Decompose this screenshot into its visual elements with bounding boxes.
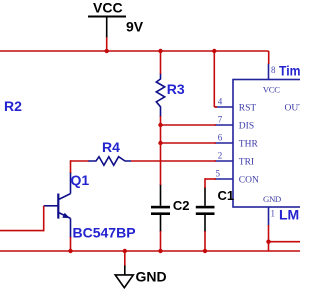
svg-text:VCC: VCC	[263, 84, 280, 94]
svg-text:OUT: OUT	[285, 103, 301, 113]
svg-text:C2: C2	[173, 198, 190, 213]
svg-text:6: 6	[218, 133, 223, 143]
svg-text:CON: CON	[239, 175, 259, 185]
svg-text:Q1: Q1	[71, 172, 90, 188]
svg-text:9V: 9V	[126, 19, 144, 35]
svg-text:R4: R4	[102, 139, 120, 155]
svg-text:BC547BP: BC547BP	[73, 225, 136, 241]
svg-text:R2: R2	[4, 98, 22, 114]
svg-text:C1: C1	[218, 188, 235, 203]
svg-text:Tim: Tim	[279, 63, 300, 79]
svg-text:DIS: DIS	[239, 121, 254, 131]
svg-text:2: 2	[218, 151, 223, 161]
svg-text:R3: R3	[167, 81, 185, 97]
svg-text:7: 7	[218, 115, 223, 125]
svg-text:VCC: VCC	[93, 0, 123, 15]
svg-text:1: 1	[271, 209, 276, 219]
svg-text:4: 4	[218, 97, 223, 107]
svg-text:RST: RST	[239, 103, 257, 113]
svg-text:5: 5	[216, 168, 221, 178]
svg-text:THR: THR	[239, 139, 259, 149]
svg-text:8: 8	[271, 65, 276, 75]
svg-text:GND: GND	[136, 269, 167, 285]
svg-text:GND: GND	[263, 194, 281, 204]
svg-text:TRI: TRI	[239, 157, 254, 167]
svg-text:LM555CM: LM555CM	[279, 207, 300, 223]
